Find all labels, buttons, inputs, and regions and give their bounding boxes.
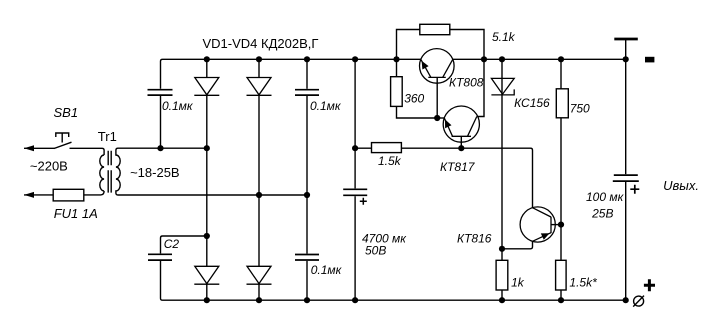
svg-text:1.5k*: 1.5k* (569, 276, 597, 290)
svg-text:25В: 25В (591, 207, 613, 221)
svg-text:КТ816: КТ816 (457, 232, 492, 246)
svg-text:Uвых.: Uвых. (663, 178, 699, 193)
svg-text:КТ817: КТ817 (440, 160, 476, 174)
svg-text:~18-25В: ~18-25В (130, 165, 180, 180)
svg-text:Tr1: Tr1 (98, 129, 117, 144)
svg-text:1k: 1k (511, 276, 525, 290)
svg-text:SB1: SB1 (54, 105, 79, 120)
svg-text:VD1-VD4 КД202В,Г: VD1-VD4 КД202В,Г (203, 36, 319, 51)
svg-text:0.1мк: 0.1мк (162, 99, 194, 113)
svg-text:~220В: ~220В (30, 159, 68, 174)
svg-text:КС156: КС156 (514, 96, 550, 110)
svg-text:КТ808: КТ808 (449, 76, 484, 90)
svg-text:50В: 50В (365, 244, 386, 258)
svg-text:1.5k: 1.5k (378, 154, 402, 168)
svg-text:750: 750 (570, 102, 590, 116)
svg-text:360: 360 (404, 92, 424, 106)
svg-text:FU1 1A: FU1 1A (54, 206, 98, 221)
svg-text:5.1k: 5.1k (492, 30, 516, 44)
svg-text:C2: C2 (164, 237, 180, 251)
svg-text:100 мк: 100 мк (586, 190, 625, 204)
svg-text:0.1мк: 0.1мк (311, 263, 343, 277)
svg-text:0.1мк: 0.1мк (310, 99, 342, 113)
